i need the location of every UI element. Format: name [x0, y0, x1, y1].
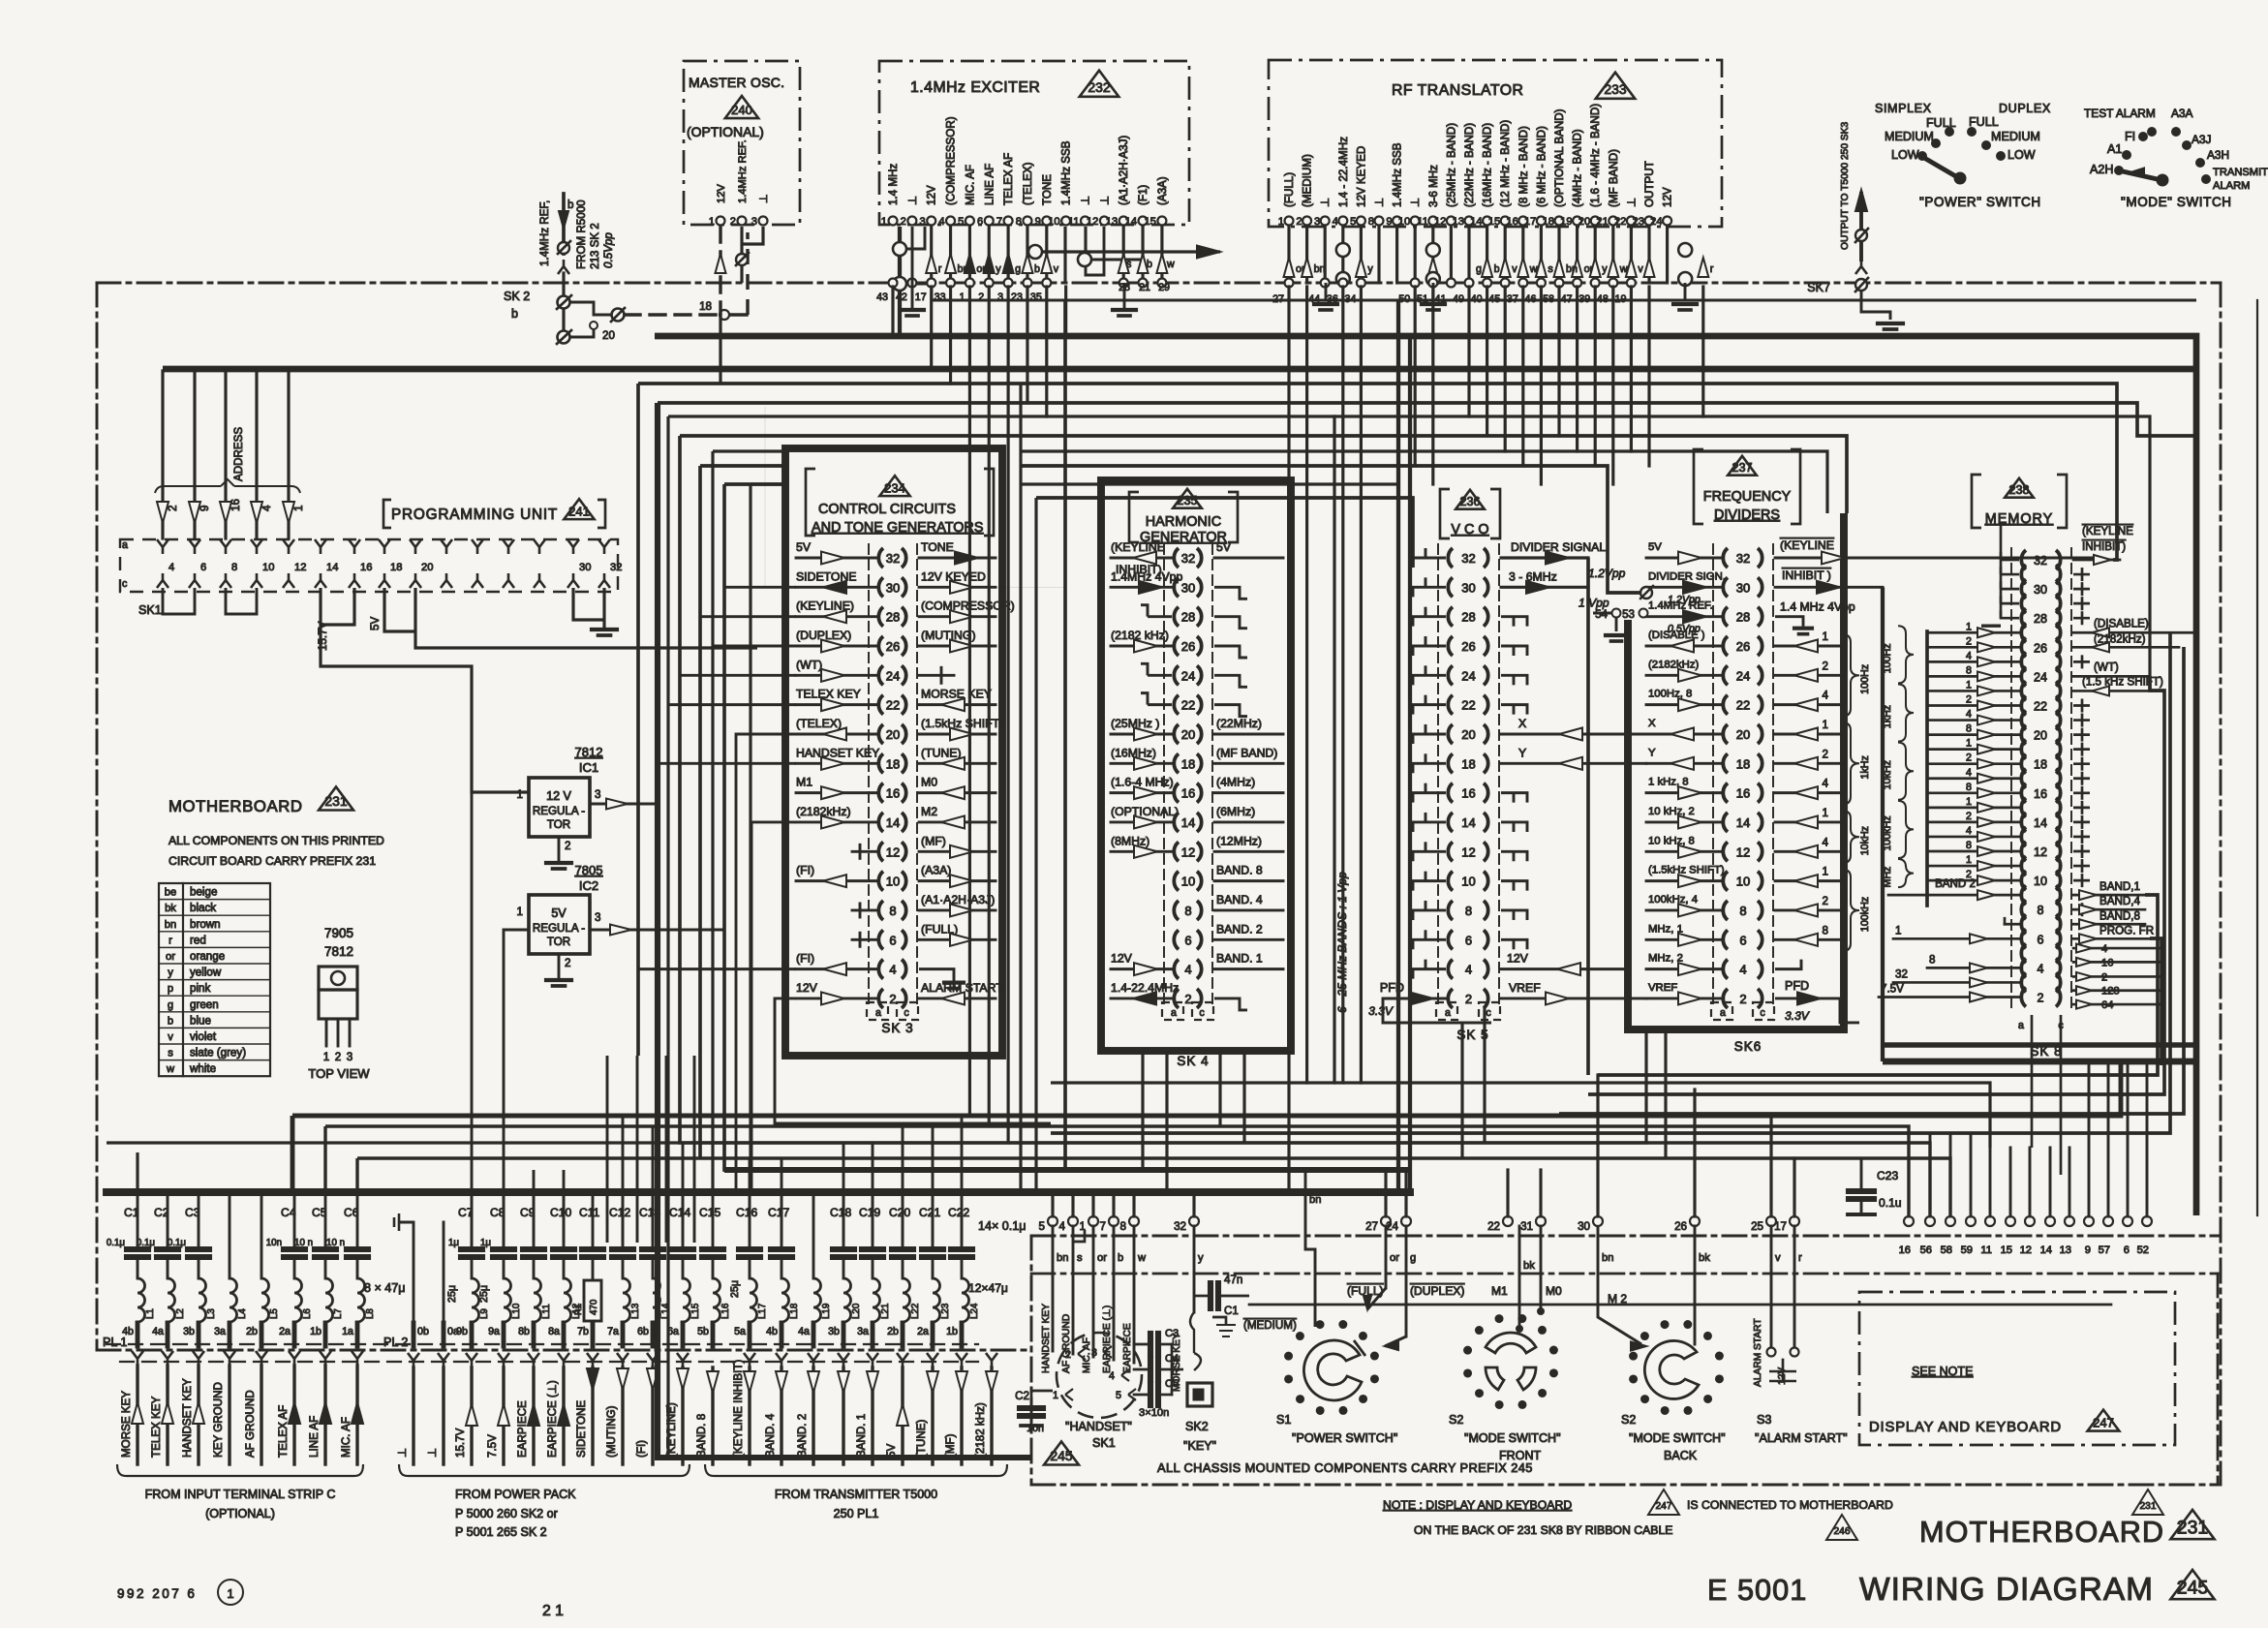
- svg-text:C16: C16: [736, 1206, 757, 1219]
- svg-text:v: v: [1512, 263, 1517, 275]
- svg-text:TRANSMIT: TRANSMIT: [2213, 167, 2268, 178]
- svg-text:100Hz: 100Hz: [1859, 664, 1871, 694]
- svg-text:(A1·A2H·A3J): (A1·A2H·A3J): [921, 893, 995, 906]
- PL1 pin 4a: [812, 1192, 815, 1278]
- svg-text:(OPTIONAL): (OPTIONAL): [1111, 805, 1179, 818]
- svg-text:IC1: IC1: [579, 760, 598, 775]
- svg-text:14: 14: [2034, 816, 2047, 830]
- svg-text:233: 233: [1604, 81, 1627, 97]
- SK1 pin forks: [157, 539, 169, 554]
- svg-text:7812: 7812: [575, 745, 603, 759]
- svg-text:5V: 5V: [796, 540, 812, 554]
- svg-text:⊥: ⊥: [1625, 198, 1638, 207]
- svg-text:6: 6: [1739, 933, 1746, 947]
- svg-text:12: 12: [2034, 845, 2047, 859]
- svg-text:59: 59: [1961, 1244, 1973, 1256]
- svg-text:TOR: TOR: [547, 936, 570, 948]
- svg-text:r: r: [1710, 263, 1714, 275]
- svg-text:y: y: [1198, 1252, 1204, 1264]
- svg-text:9b: 9b: [456, 1326, 468, 1337]
- svg-text:C21: C21: [919, 1206, 940, 1219]
- svg-text:16: 16: [886, 786, 900, 801]
- svg-text:13: 13: [2060, 1244, 2071, 1256]
- svg-text:10: 10: [2034, 875, 2047, 888]
- svg-text:(22MHz): (22MHz): [1216, 717, 1262, 730]
- svg-text:3: 3: [595, 911, 600, 924]
- svg-text:(DISABLE): (DISABLE): [2094, 617, 2149, 630]
- svg-text:10 n: 10 n: [294, 1238, 313, 1248]
- svg-text:32: 32: [886, 551, 900, 566]
- svg-text:b: b: [1494, 263, 1500, 275]
- svg-text:3b: 3b: [183, 1326, 195, 1337]
- svg-text:1.4 - 22.4MHz: 1.4 - 22.4MHz: [1337, 137, 1350, 207]
- svg-text:28: 28: [886, 610, 900, 625]
- svg-text:TOP VIEW: TOP VIEW: [308, 1066, 370, 1081]
- svg-text:BAND. 4: BAND. 4: [1216, 893, 1263, 906]
- svg-text:16: 16: [2101, 957, 2113, 968]
- external wires from PL1 to power pack: [408, 1353, 419, 1367]
- ground at SK7: [1878, 322, 1903, 325]
- switch S3 ALARM START wires: [1770, 1226, 1773, 1352]
- svg-text:22: 22: [1181, 698, 1195, 713]
- svg-text:2: 2: [978, 292, 984, 303]
- svg-text:1.4MHz REF.: 1.4MHz REF.: [737, 139, 749, 203]
- svg-text:"POWER" SWITCH: "POWER" SWITCH: [1919, 195, 2041, 209]
- SK6 pin32 keyline inhibit: [1775, 557, 2101, 560]
- mode switch wiper: [2123, 171, 2161, 180]
- page edge line right: [2256, 300, 2258, 1215]
- svg-text:35: 35: [1030, 292, 1042, 303]
- svg-text:BAND. 1: BAND. 1: [855, 1414, 868, 1458]
- svg-text:(A1·A2H·A3J): (A1·A2H·A3J): [1118, 136, 1130, 205]
- svg-text:20: 20: [602, 329, 615, 342]
- svg-text:P 5000 260 SK2 or: P 5000 260 SK2 or: [455, 1507, 558, 1520]
- svg-text:8: 8: [1966, 782, 1972, 793]
- title 238 MEMORY: [1972, 475, 1981, 528]
- SK8 programming outputs 4 16 2 128 64: [2073, 947, 2160, 950]
- svg-text:10 n: 10 n: [326, 1238, 345, 1248]
- svg-text:1: 1: [1823, 807, 1828, 819]
- svg-text:47n: 47n: [1224, 1274, 1242, 1286]
- svg-text:b: b: [168, 1015, 173, 1027]
- svg-text:R1: R1: [573, 1304, 583, 1315]
- svg-text:16: 16: [1461, 786, 1475, 801]
- svg-text:v: v: [1638, 263, 1643, 275]
- frequency group braces right of SK6: [1842, 634, 1859, 717]
- svg-text:(MF BAND): (MF BAND): [1216, 746, 1277, 759]
- svg-text:a: a: [1445, 1007, 1451, 1019]
- svg-text:M1: M1: [1491, 1284, 1508, 1298]
- svg-text:ON THE BACK OF 231 SK8 BY: ON THE BACK OF 231 SK8 BY RIBBON CABLE: [1414, 1523, 1672, 1537]
- svg-text:w: w: [1166, 259, 1175, 270]
- svg-text:(OPTIONAL): (OPTIONAL): [687, 124, 764, 139]
- right verticals from SK8 outputs: [1051, 632, 2170, 1133]
- svg-text:3.3V: 3.3V: [1785, 1009, 1810, 1023]
- svg-text:Y: Y: [1648, 747, 1656, 758]
- svg-text:20: 20: [1736, 727, 1750, 742]
- rotary switch S2 MODE SWITCH FRONT: [1549, 1368, 1558, 1377]
- svg-text:7a: 7a: [607, 1326, 619, 1337]
- svg-text:a: a: [875, 1007, 881, 1019]
- programming bus horizontals lower middle: [292, 1061, 2121, 1116]
- svg-text:(MF BAND): (MF BAND): [1608, 149, 1620, 207]
- dashed row below PL1: [120, 1361, 978, 1363]
- wires SK1 pins 18,20 join to 5V rail: [384, 588, 415, 631]
- svg-text:247: 247: [2093, 1416, 2114, 1430]
- bus corner top-left nest 4: [698, 466, 702, 1158]
- svg-text:1: 1: [1895, 924, 1901, 937]
- svg-text:L2: L2: [175, 1308, 186, 1319]
- svg-text:(2182 kHz): (2182 kHz): [1111, 629, 1169, 642]
- svg-text:3-6 MHz: 3-6 MHz: [1427, 165, 1440, 207]
- svg-text:7: 7: [996, 216, 1002, 228]
- svg-text:10: 10: [1181, 875, 1195, 889]
- external wires from PL1 to input terminal strip: [132, 1351, 143, 1366]
- connector SK8 pin rows: [2010, 548, 2012, 1012]
- svg-text:3: 3: [751, 216, 757, 228]
- svg-text:25μ: 25μ: [729, 1280, 741, 1298]
- wire exciter pin1 1.4MHz down: [898, 227, 902, 336]
- svg-text:(12MHz): (12MHz): [1216, 834, 1262, 847]
- svg-text:2a: 2a: [279, 1326, 291, 1337]
- svg-text:beige: beige: [190, 886, 217, 899]
- svg-text:(MEDIUM): (MEDIUM): [1302, 154, 1314, 207]
- wires capacitor bank verticals up from bus: [136, 1152, 138, 1192]
- svg-text:52: 52: [2137, 1244, 2149, 1256]
- svg-text:HANDSET KEY: HANDSET KEY: [1041, 1304, 1052, 1373]
- sk8 column feeders to ribbon: [2031, 1015, 2034, 1148]
- SK6 pin28 stub: [1775, 617, 1803, 627]
- svg-text:4b: 4b: [766, 1326, 778, 1337]
- svg-text:L11: L11: [541, 1304, 552, 1319]
- svg-text:6: 6: [889, 933, 896, 947]
- svg-text:S1: S1: [1276, 1413, 1291, 1427]
- svg-text:49: 49: [1453, 293, 1464, 305]
- svg-text:A3J: A3J: [2191, 133, 2212, 146]
- svg-text:bk: bk: [1523, 1260, 1535, 1272]
- mid horizontal bundle to right blocks: [1051, 1083, 1990, 1148]
- svg-text:12V: 12V: [796, 981, 818, 995]
- svg-text:(6MHz): (6MHz): [1216, 805, 1255, 818]
- svg-text:32: 32: [610, 562, 622, 573]
- svg-text:8: 8: [889, 904, 896, 918]
- svg-text:7905: 7905: [324, 926, 353, 940]
- svg-text:g: g: [168, 999, 173, 1011]
- svg-text:4: 4: [1966, 767, 1972, 779]
- svg-text:g: g: [1015, 263, 1021, 275]
- title 237 FREQUENCY DIVIDERS: [1694, 449, 1703, 524]
- heavy horizontal bus above caps right part: [724, 1167, 1410, 1173]
- svg-text:24: 24: [1181, 668, 1195, 683]
- svg-text:be: be: [165, 887, 176, 899]
- svg-text:45: 45: [1488, 293, 1500, 305]
- svg-text:25: 25: [1751, 1220, 1763, 1233]
- svg-text:(FI): (FI): [796, 864, 814, 877]
- svg-text:1b: 1b: [946, 1326, 958, 1337]
- svg-text:OUTPUT: OUTPUT: [1643, 161, 1656, 207]
- svg-text:TOR: TOR: [547, 818, 570, 831]
- svg-text:r: r: [938, 263, 942, 275]
- bus nest 5 to VCO: [724, 484, 1037, 1170]
- svg-text:HARMONIC: HARMONIC: [1146, 514, 1221, 530]
- svg-text:⊥: ⊥: [1080, 196, 1092, 205]
- svg-text:128: 128: [2101, 986, 2120, 998]
- svg-text:(OPTIONAL BAND): (OPTIONAL BAND): [1553, 108, 1566, 207]
- svg-text:bk: bk: [165, 903, 176, 914]
- svg-text:C12: C12: [609, 1206, 630, 1219]
- svg-text:black: black: [190, 902, 216, 914]
- svg-text:or: or: [166, 951, 175, 963]
- svg-text:2: 2: [565, 957, 570, 969]
- svg-text:SIMPLEX: SIMPLEX: [1875, 102, 1932, 115]
- svg-text:c: c: [1486, 1007, 1491, 1019]
- svg-text:12: 12: [1736, 845, 1750, 859]
- svg-text:8: 8: [1368, 216, 1374, 228]
- svg-text:12: 12: [294, 562, 306, 573]
- svg-text:(FI): (FI): [796, 952, 814, 966]
- svg-text:2: 2: [565, 840, 570, 852]
- svg-text:or: or: [1097, 1252, 1107, 1264]
- svg-text:ALARM: ALARM: [2213, 180, 2250, 192]
- svg-text:54: 54: [1595, 608, 1608, 621]
- svg-text:(6 MHz - BAND): (6 MHz - BAND): [1535, 126, 1548, 207]
- svg-text:100Hz, 8: 100Hz, 8: [1648, 689, 1692, 700]
- svg-text:7812: 7812: [324, 944, 353, 959]
- svg-text:L5: L5: [269, 1308, 280, 1319]
- svg-text:4: 4: [1465, 963, 1472, 977]
- svg-text:0b: 0b: [417, 1326, 429, 1337]
- svg-text:EARPIECE (⊥): EARPIECE (⊥): [1102, 1305, 1113, 1373]
- svg-text:0.1μ: 0.1μ: [168, 1238, 186, 1248]
- svg-text:b: b: [1118, 1252, 1123, 1264]
- svg-text:23: 23: [1633, 216, 1644, 228]
- svg-text:5V: 5V: [369, 617, 382, 630]
- svg-text:REGULA -: REGULA -: [533, 922, 585, 935]
- ribbon cable pins row to display/keyboard: [1904, 1216, 1914, 1226]
- wire drop rf pin3 column: [1333, 416, 1335, 1083]
- brace FROM POWER PACK: [399, 1464, 690, 1476]
- svg-text:(KEYLINE: (KEYLINE: [1780, 538, 1834, 552]
- svg-text:10n: 10n: [266, 1238, 282, 1248]
- svg-text:M0: M0: [1546, 1284, 1562, 1298]
- vertical drops from bus to bottom connector pins: [1051, 1192, 1054, 1216]
- svg-text:15: 15: [2001, 1244, 2012, 1256]
- svg-text:s: s: [1077, 1252, 1083, 1264]
- svg-text:c: c: [122, 578, 128, 590]
- svg-text:a: a: [122, 539, 128, 551]
- svg-text:1: 1: [1966, 854, 1972, 866]
- svg-text:3×10n: 3×10n: [1139, 1407, 1169, 1419]
- module 235 HARMONIC GENERATOR heavy box: [1101, 480, 1291, 1051]
- svg-text:32: 32: [1174, 1220, 1186, 1233]
- svg-text:4: 4: [1823, 778, 1829, 790]
- svg-text:r: r: [169, 935, 172, 946]
- svg-text:(TELEX): (TELEX): [1022, 162, 1034, 205]
- svg-text:12V: 12V: [1111, 952, 1133, 966]
- svg-text:MORSE KEY: MORSE KEY: [1172, 1333, 1182, 1392]
- svg-text:10: 10: [1398, 216, 1410, 228]
- svg-text:30: 30: [1578, 1220, 1590, 1233]
- svg-text:12×47μ: 12×47μ: [968, 1281, 1008, 1295]
- bus corner top-left nest 2: [658, 403, 1031, 1458]
- svg-text:2: 2: [2101, 971, 2107, 983]
- svg-text:21: 21: [1139, 282, 1150, 293]
- svg-text:1.4MHz REF,: 1.4MHz REF,: [538, 200, 551, 266]
- vertical feeders below SK5: [1460, 1023, 1463, 1158]
- wire master osc pin1 12V dashed down: [719, 227, 721, 315]
- ground at S3: [1782, 1360, 1785, 1371]
- svg-text:(FULL): (FULL): [1283, 172, 1296, 207]
- svg-text:L1: L1: [145, 1308, 156, 1319]
- svg-text:(MUTING): (MUTING): [605, 1405, 618, 1458]
- SK6 pin2 PFD out: [1775, 997, 1840, 999]
- svg-text:MEMORY: MEMORY: [1985, 511, 2054, 527]
- svg-text:2: 2: [1823, 748, 1828, 760]
- svg-text:C22: C22: [948, 1206, 969, 1219]
- svg-text:M2: M2: [921, 805, 937, 818]
- svg-text:8: 8: [1184, 904, 1191, 918]
- svg-text:FROM INPUT TERMINAL STRIP: FROM INPUT TERMINAL STRIP C: [145, 1488, 336, 1501]
- svg-text:4a: 4a: [152, 1326, 164, 1337]
- svg-text:"HANDSET": "HANDSET": [1065, 1420, 1132, 1433]
- svg-text:y: y: [1367, 263, 1373, 275]
- svg-text:20: 20: [2034, 729, 2047, 743]
- svg-text:6b: 6b: [637, 1326, 649, 1337]
- svg-text:10: 10: [262, 562, 274, 573]
- heavy bus from exciter area to right side: [655, 336, 2196, 1215]
- SK6 pin4 stub gnd: [1775, 968, 1797, 969]
- svg-text:6: 6: [2038, 933, 2044, 946]
- svg-text:4: 4: [2038, 962, 2044, 975]
- svg-text:5: 5: [1116, 1390, 1121, 1401]
- svg-text:L21: L21: [880, 1304, 891, 1319]
- vertical trunk right of SK5: [1586, 558, 1590, 1075]
- svg-text:y: y: [1602, 263, 1608, 275]
- svg-text:2: 2: [730, 216, 736, 228]
- svg-text:(TUNE): (TUNE): [915, 1420, 928, 1458]
- svg-text:27: 27: [1272, 293, 1284, 305]
- svg-text:DIVIDERS: DIVIDERS: [1714, 507, 1780, 523]
- svg-text:green: green: [190, 998, 219, 1011]
- rotary switch S1 POWER SWITCH: [1370, 1374, 1379, 1383]
- svg-text:pink: pink: [190, 982, 210, 995]
- title 235 HARMONIC GENERATOR: [1129, 492, 1139, 542]
- wire dashed node 18 line: [625, 313, 717, 316]
- svg-text:OUTPUT TO T5000 250 SK3: OUTPUT TO T5000 250 SK3: [1840, 122, 1851, 250]
- svg-text:bn: bn: [1309, 1194, 1321, 1206]
- svg-text:2: 2: [1966, 635, 1972, 647]
- svg-text:237: 237: [1732, 461, 1753, 475]
- svg-text:TONE: TONE: [921, 540, 954, 554]
- svg-text:16: 16: [1506, 216, 1517, 228]
- svg-text:DISPLAY AND KEYBOARD: DISPLAY AND KEYBOARD: [1869, 1420, 2062, 1435]
- svg-text:FROM TRANSMITTER T5000: FROM TRANSMITTER T5000: [775, 1488, 937, 1501]
- svg-text:1: 1: [1966, 679, 1972, 691]
- svg-text:(TELEX): (TELEX): [796, 717, 842, 730]
- svg-text:6: 6: [1465, 933, 1472, 947]
- svg-text:bn: bn: [1602, 1252, 1613, 1264]
- svg-text:s: s: [1548, 263, 1552, 275]
- handset wires from frame: [1052, 1226, 1055, 1351]
- svg-text:INHIBIT ): INHIBIT ): [1782, 568, 1831, 582]
- svg-text:26: 26: [1181, 639, 1195, 654]
- svg-text:M1: M1: [796, 776, 812, 789]
- svg-text:C17: C17: [768, 1206, 789, 1219]
- trunk from VCO divider signal to SK6: [1881, 587, 1885, 1061]
- svg-text:1.2Vpp: 1.2Vpp: [1668, 594, 1701, 605]
- svg-text:L17: L17: [757, 1304, 768, 1319]
- svg-text:EARPIECE (⊥): EARPIECE (⊥): [546, 1380, 559, 1458]
- svg-text:L22: L22: [910, 1304, 921, 1319]
- svg-text:1.4MHz SSB: 1.4MHz SSB: [1392, 142, 1404, 207]
- ground at IC2: [546, 978, 571, 982]
- svg-text:24: 24: [1650, 216, 1662, 228]
- connector SK4 pin rows: [1163, 544, 1165, 1007]
- svg-text:SK1: SK1: [1092, 1436, 1116, 1450]
- svg-text:238: 238: [2009, 483, 2030, 497]
- svg-text:18: 18: [2034, 758, 2047, 772]
- svg-text:231: 231: [324, 793, 348, 809]
- svg-text:C2: C2: [1015, 1390, 1029, 1402]
- cap columns rising to bus bundle: [606, 1056, 609, 1243]
- svg-text:7805: 7805: [575, 863, 603, 877]
- PL1 PL2 dashed connector row: [107, 1343, 978, 1345]
- svg-text:3b: 3b: [828, 1326, 840, 1337]
- svg-text:56: 56: [1920, 1244, 1932, 1256]
- svg-text:235: 235: [1178, 494, 1198, 507]
- svg-text:29: 29: [1158, 282, 1170, 293]
- svg-text:SK7: SK7: [1807, 281, 1830, 294]
- svg-text:4: 4: [1059, 1220, 1066, 1233]
- svg-text:w: w: [1137, 1252, 1147, 1264]
- svg-text:26: 26: [886, 639, 900, 654]
- svg-text:2: 2: [1296, 216, 1302, 228]
- svg-text:26: 26: [1461, 639, 1475, 654]
- svg-text:9: 9: [1035, 216, 1041, 228]
- svg-text:C20: C20: [889, 1206, 910, 1219]
- left side long horizontals from SK3 into left frame: [765, 407, 796, 587]
- svg-text:1: 1: [1966, 738, 1972, 750]
- svg-text:y: y: [168, 968, 173, 979]
- svg-text:⊥: ⊥: [906, 196, 919, 205]
- svg-text:1: 1: [1823, 719, 1828, 731]
- svg-text:9: 9: [199, 506, 211, 511]
- svg-text:c: c: [1199, 1007, 1205, 1019]
- wire SK2b to master osc (dashed): [562, 273, 565, 341]
- svg-text:236: 236: [1460, 495, 1481, 508]
- svg-text:REGULA -: REGULA -: [533, 805, 585, 817]
- svg-text:37: 37: [1507, 293, 1518, 305]
- svg-text:2a: 2a: [917, 1326, 929, 1337]
- svg-text:1a: 1a: [342, 1326, 353, 1337]
- svg-text:4: 4: [1966, 825, 1972, 837]
- svg-text:30: 30: [1181, 580, 1195, 595]
- svg-text:992 207 6: 992 207 6: [117, 1586, 197, 1601]
- svg-text:1.4MHz 4Vpp: 1.4MHz 4Vpp: [1111, 569, 1182, 583]
- svg-text:bn: bn: [958, 263, 969, 275]
- svg-text:EARPIECE: EARPIECE: [1122, 1323, 1133, 1373]
- svg-text:⊥: ⊥: [1409, 198, 1422, 207]
- svg-text:BAND. 2: BAND. 2: [1216, 922, 1263, 936]
- svg-text:1.4 MHz: 1.4 MHz: [887, 164, 900, 205]
- svg-text:ALL COMPONENTS ON THIS PRI: ALL COMPONENTS ON THIS PRINTED: [169, 834, 384, 847]
- connector SK7 on frame: [1855, 279, 1867, 291]
- svg-text:MEDIUM: MEDIUM: [1991, 130, 2040, 143]
- svg-text:23: 23: [1011, 292, 1023, 303]
- svg-text:BAND,4: BAND,4: [2099, 895, 2140, 907]
- display and keyboard 247 box (dash-dot): [1859, 1292, 2175, 1445]
- title 236 VCO: [1440, 489, 1450, 538]
